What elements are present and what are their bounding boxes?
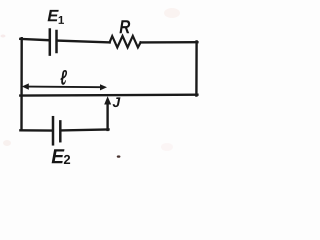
- battery E1 long plate: [49, 30, 52, 55]
- speck artifact: [117, 155, 121, 157]
- battery E2 short plate: [59, 121, 62, 141]
- label E2: [52, 149, 70, 164]
- wire top segment (E1 to resistor): [58, 41, 110, 43]
- wire bottom segment (E2 to jockey): [61, 128, 108, 131]
- wire top segment (left corner to E1): [20, 39, 49, 40]
- wire left vertical: [20, 38, 23, 130]
- label E1: [48, 10, 64, 24]
- wire top segment (resistor to right corner): [141, 41, 198, 44]
- faint scan smudge top right: [164, 8, 180, 18]
- wire right vertical: [195, 41, 198, 95]
- wire bottom segment (left corner to E2): [20, 129, 52, 132]
- battery E2 long plate: [52, 117, 55, 144]
- wire potentiometer slide wire: [20, 93, 197, 96]
- faint scan smudge mid right: [161, 143, 173, 151]
- wire jockey vertical at J: [106, 103, 108, 130]
- label l (length of slide wire): [60, 70, 67, 85]
- jockey arrowhead at node J: [104, 96, 111, 104]
- resistor R1 zigzag: [110, 36, 141, 48]
- label J: [113, 97, 121, 107]
- length arrow l (double headed): [22, 83, 107, 90]
- battery E1 short plate: [55, 31, 58, 52]
- label R: [120, 20, 131, 33]
- faint speckles bottom left: [3, 140, 11, 146]
